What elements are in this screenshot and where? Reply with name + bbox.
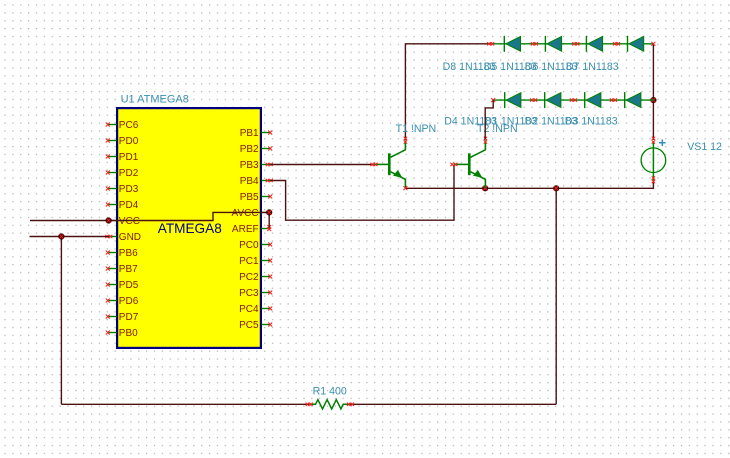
wire bottom rail up to emitter rail — [555, 188, 557, 404]
transistor T1 — [370, 137, 407, 191]
svg-text:PB5: PB5 — [240, 192, 259, 203]
svg-text:VCC: VCC — [119, 216, 140, 227]
svg-text:PD6: PD6 — [119, 296, 139, 307]
svg-text:PC3: PC3 — [239, 288, 259, 299]
svg-text:VS1 12: VS1 12 — [687, 141, 722, 153]
svg-text:PD0: PD0 — [119, 136, 139, 147]
svg-text:PC6: PC6 — [119, 120, 139, 131]
svg-text:U1 ATMEGA8: U1 ATMEGA8 — [121, 94, 189, 106]
wire PB3 to T1 base — [270, 164, 374, 166]
svg-text:PC1: PC1 — [239, 256, 259, 267]
label D2 1N1183 — [525, 115, 578, 127]
label VS1 12 — [687, 141, 722, 153]
pin PB3 (U1 right) — [240, 160, 273, 171]
pin PC6 (U1 left) — [106, 120, 139, 131]
svg-text:GND: GND — [119, 232, 141, 243]
wire AVCC to AREF — [268, 212, 270, 227]
svg-text:PD7: PD7 — [119, 312, 139, 323]
svg-text:PC0: PC0 — [239, 240, 259, 251]
pin PC4 (U1 right) — [239, 304, 272, 315]
svg-text:PB6: PB6 — [119, 248, 138, 259]
svg-text:D7 1N1183: D7 1N1183 — [566, 61, 619, 73]
pin PD4 (U1 left) — [106, 200, 139, 211]
svg-text:T1 !NPN: T1 !NPN — [396, 123, 437, 135]
label T2 !NPN — [477, 123, 518, 135]
svg-text:PB1: PB1 — [240, 128, 259, 139]
wire VS1 top to diode rows — [652, 44, 654, 140]
op-amp U1 ATMEGA8 body — [117, 108, 261, 348]
resistor R1 — [306, 400, 354, 409]
diode D8 1N1183 — [504, 36, 520, 52]
svg-text:PB0: PB0 — [119, 328, 138, 339]
node bottom chain connection markers — [491, 98, 617, 102]
svg-text:PD5: PD5 — [119, 280, 139, 291]
wire bottom diode row to T2 collector — [485, 100, 493, 140]
pin PC3 (U1 right) — [239, 288, 272, 299]
pin AVCC (U1 right) — [232, 208, 271, 219]
pin PD1 (U1 left) — [106, 152, 139, 163]
pin PC2 (U1 right) — [239, 272, 272, 283]
wire VCC feed from left — [30, 220, 109, 222]
pin AREF (U1 right) — [232, 224, 271, 235]
pin PB2 (U1 right) — [240, 144, 273, 155]
node VCC junction — [106, 217, 112, 223]
svg-text:R1 400: R1 400 — [313, 385, 347, 397]
svg-text:PC2: PC2 — [239, 272, 259, 283]
pin PB6 (U1 left) — [106, 248, 138, 259]
label D8 1N1183 — [443, 61, 496, 73]
svg-text:ATMEGA8: ATMEGA8 — [158, 221, 222, 236]
svg-text:PB4: PB4 — [240, 176, 259, 187]
label U1 ATMEGA8 — [121, 94, 189, 106]
node bottom diode row / VS1 wire junction — [650, 97, 656, 103]
label R1 400 — [313, 385, 347, 397]
pin PD3 (U1 left) — [106, 184, 139, 195]
wire top diode row to T1 collector — [405, 44, 490, 140]
pin PD2 (U1 left) — [106, 168, 139, 179]
svg-text:PB2: PB2 — [240, 144, 259, 155]
diode D3 1N1183 — [625, 92, 641, 108]
svg-text:PB7: PB7 — [119, 264, 138, 275]
pin PD5 (U1 left) — [106, 280, 139, 291]
diode D6 1N1183 — [586, 36, 602, 52]
wire VCC to AVCC across block — [109, 212, 270, 220]
label T1 !NPN — [396, 123, 437, 135]
node T2 emitter junction — [482, 185, 488, 191]
svg-text:PC5: PC5 — [239, 320, 259, 331]
wire top diode chain rail — [491, 43, 654, 45]
label D1 1N1183 — [484, 115, 537, 127]
svg-text:AVCC: AVCC — [232, 208, 259, 219]
wire bottom rail right of R1 — [351, 403, 557, 405]
diode D4 1N1183 — [505, 92, 521, 108]
diode D2 1N1183 — [585, 92, 601, 108]
wire GND down left side — [60, 237, 62, 405]
pin PB1 (U1 right) — [240, 128, 273, 139]
svg-text:PD4: PD4 — [119, 200, 139, 211]
wire bottom diode chain rail — [493, 99, 654, 101]
transistor T2 — [450, 137, 487, 188]
label D6 1N1183 — [525, 61, 578, 73]
wire PB4 to T2 base — [270, 165, 454, 221]
svg-text:AREF: AREF — [232, 224, 259, 235]
pin PC1 (U1 right) — [239, 256, 272, 267]
svg-text:PB3: PB3 — [240, 160, 259, 171]
pin PB4 (U1 right) — [240, 176, 273, 187]
pin PD0 (U1 left) — [106, 136, 139, 147]
label D5 1N1183 — [484, 61, 537, 73]
pin PB5 (U1 right) — [240, 192, 273, 203]
svg-text:PD2: PD2 — [119, 168, 139, 179]
svg-text:PD3: PD3 — [119, 184, 139, 195]
node AVCC junction — [266, 209, 272, 215]
diode D7 1N1183 — [628, 36, 644, 52]
svg-text:PC4: PC4 — [239, 304, 259, 315]
svg-text:PD1: PD1 — [119, 152, 139, 163]
wire bottom rail left of R1 — [61, 403, 309, 405]
pin GND (U1 left) — [105, 232, 141, 243]
wire emitter rail — [405, 180, 653, 188]
node GND junction — [58, 233, 64, 239]
pin PD7 (U1 left) — [106, 312, 139, 323]
label D4 1N1183 — [444, 115, 497, 127]
diode D5 1N1183 — [545, 36, 561, 52]
node emitter-rail / bottom-rail junction — [553, 185, 559, 191]
voltage source VS1 — [641, 137, 666, 184]
node top chain connection markers — [487, 42, 655, 46]
svg-text:D3 1N1183: D3 1N1183 — [565, 115, 618, 127]
pin PB7 (U1 left) — [106, 264, 138, 275]
wire GND feed from left — [30, 236, 110, 238]
pin PD6 (U1 left) — [106, 296, 139, 307]
label D3 1N1183 — [565, 115, 618, 127]
pin PC5 (U1 right) — [239, 320, 272, 331]
pin VCC (U1 left) — [108, 216, 140, 227]
diode D1 1N1183 — [545, 92, 561, 108]
pin PB0 (U1 left) — [106, 328, 138, 339]
pin PC0 (U1 right) — [239, 240, 272, 251]
label D7 1N1183 — [566, 61, 619, 73]
